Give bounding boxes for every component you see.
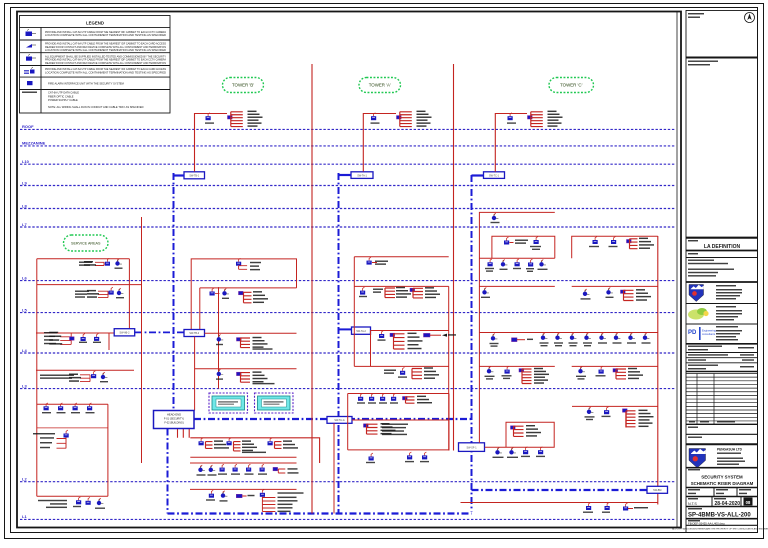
svg-text:LOCATION COMPLETE WITH ALL CON: LOCATION COMPLETE WITH ALL CONTAINMENT T… — [45, 48, 166, 52]
main consultant logo — [689, 449, 706, 468]
cluster tower C L5 cameras — [493, 333, 495, 336]
architect logo — [689, 285, 704, 302]
legend symbol row4 — [24, 71, 29, 74]
zone label TOWER B — [223, 78, 264, 93]
cluster tower A L4 — [384, 370, 396, 371]
camera tower C L9 — [494, 213, 496, 216]
fiber elbow tower A — [339, 174, 352, 176]
project name — [688, 240, 698, 241]
fiber trunk horizontal head-end to tower A — [194, 418, 472, 420]
riser main tower C — [657, 236, 659, 505]
floor line L8 — [20, 208, 676, 210]
riser tower C — [495, 114, 527, 172]
client info — [688, 260, 714, 261]
scale date row — [686, 497, 758, 507]
zone label SERVICE AREAS — [64, 235, 109, 251]
floor line ROOF — [20, 128, 676, 130]
branch tower B L3 lower edge — [190, 456, 296, 458]
switch tower B roof — [184, 172, 205, 179]
svg-text:SW-TC-1: SW-TC-1 — [489, 174, 500, 177]
branch tower B L7 box — [191, 259, 296, 332]
floor line L10 — [20, 163, 676, 165]
fiber trunk vertical tower C — [471, 175, 473, 512]
floor line L6 — [20, 280, 676, 282]
riser main tower A — [453, 64, 455, 451]
branch tower B L2 — [190, 488, 297, 490]
filename row — [688, 520, 700, 521]
svg-text:FIBER OPTIC CABLE: FIBER OPTIC CABLE — [48, 94, 74, 98]
branch tower C basement — [461, 502, 658, 504]
head-end connections — [178, 429, 320, 464]
branch tower B L6 — [200, 288, 297, 332]
svg-text:L10: L10 — [22, 159, 30, 164]
riser service column B — [218, 287, 220, 389]
cluster tower C L4 left — [489, 366, 491, 369]
svg-text:L4: L4 — [22, 348, 27, 353]
svg-text:N.T.S: N.T.S — [688, 502, 697, 506]
svg-text:SECURITY SYSTEM: SECURITY SYSTEM — [701, 475, 743, 480]
device row tower B L3 — [201, 465, 203, 468]
branch service L3 keypads — [37, 404, 108, 496]
ground floor branch box — [485, 422, 555, 447]
riser secondary tower A — [448, 286, 450, 450]
approval rows — [688, 346, 722, 347]
svg-text:NOTE: ALL WIRING SHALL RUN IN: NOTE: ALL WIRING SHALL RUN IN CONDUIT AN… — [48, 105, 144, 109]
fiber trunk below head-end — [167, 429, 169, 514]
svg-text:TOWER 'A': TOWER 'A' — [369, 83, 391, 88]
fiber elbow tower B — [174, 174, 185, 176]
cluster service basement — [37, 495, 108, 497]
floor line L1 — [20, 518, 676, 520]
ground floor device row — [498, 447, 500, 450]
cluster tower A L8 — [369, 257, 371, 260]
riser tower B — [195, 114, 228, 172]
drawing number — [688, 508, 702, 509]
cluster service L4 — [40, 375, 74, 376]
zone label TOWER A — [359, 78, 401, 93]
cluster tower B L6 — [212, 288, 214, 291]
monitor console 2 — [255, 393, 294, 413]
svg-text:PROVIDE AND INSTALL CAT-6A UTP: PROVIDE AND INSTALL CAT-6A UTP CABLE FRO… — [45, 67, 166, 71]
svg-text:L1: L1 — [22, 514, 27, 519]
svg-text:SW-TA-G: SW-TA-G — [334, 419, 344, 422]
svg-text:ROOF: ROOF — [22, 124, 34, 129]
device row tower C L9 mezz — [490, 259, 492, 262]
cluster tower B L3 cameras — [201, 438, 203, 441]
cluster ground floor comb — [511, 426, 516, 429]
branch service L6 — [37, 259, 142, 497]
zone label TOWER C — [549, 78, 594, 93]
switch tower C roof — [484, 172, 505, 179]
svg-text:L2: L2 — [22, 477, 27, 482]
floor line L2 — [20, 481, 676, 483]
svg-text:SCHEMATIC RISER DIAGRAM: SCHEMATIC RISER DIAGRAM — [691, 481, 754, 486]
cluster tower C L8 left — [507, 237, 509, 240]
head-end equipment box — [154, 411, 195, 429]
svg-text:SW-TB-1: SW-TB-1 — [189, 175, 199, 178]
cluster tower A L5 — [382, 331, 384, 334]
north arrow — [745, 13, 755, 23]
cluster tower C basement — [589, 503, 591, 506]
drawing status box — [686, 443, 758, 445]
branch service L4 — [36, 369, 134, 371]
title block rev text — [688, 13, 704, 14]
branch tower C L3 — [572, 405, 658, 407]
floor line L9 — [20, 185, 676, 187]
fiber elbow tower C — [472, 174, 484, 176]
svg-text:L6: L6 — [22, 275, 27, 280]
svg-text:ALL COPY AND DESIGN HEREIN ARE: ALL COPY AND DESIGN HEREIN ARE THE PROPE… — [672, 528, 768, 531]
branch tower A L4 — [354, 326, 448, 366]
client row — [688, 253, 698, 254]
cluster tower A ground row2 — [364, 424, 369, 427]
svg-text:FIRE ALARM INTERFACE UNIT WITH: FIRE ALARM INTERFACE UNIT WITH THE SECUR… — [48, 81, 124, 85]
svg-text:L5: L5 — [22, 307, 27, 312]
svg-text:SW-BM: SW-BM — [653, 489, 661, 492]
branch tower A L7 — [354, 285, 448, 287]
svg-text:L7: L7 — [22, 222, 27, 227]
branch tower A ground box — [334, 394, 449, 514]
cluster tower B L7 — [239, 258, 241, 261]
svg-text:SW-TB-2: SW-TB-2 — [189, 332, 199, 335]
svg-text:SW-TA-2: SW-TA-2 — [356, 330, 366, 333]
riser main tower B — [311, 64, 313, 514]
cluster service L5 — [44, 332, 57, 333]
drawing title — [686, 467, 758, 469]
legend symbol row5 — [27, 81, 33, 85]
branch service L5 to patch — [36, 333, 114, 350]
svg-text:READER DOOR CONTACT AND REX DE: READER DOOR CONTACT AND REX DEVICE COMPL… — [45, 61, 166, 65]
legend abbreviation label — [22, 92, 37, 93]
fiber trunk vertical tower A — [338, 173, 340, 514]
svg-text:CAT-6A UTP DATA CABLE: CAT-6A UTP DATA CABLE — [48, 91, 79, 95]
svg-text:TOWER 'C': TOWER 'C' — [560, 83, 582, 88]
cluster service L7a — [79, 262, 92, 263]
svg-text:LOCATION COMPLETE WITH ALL CON: LOCATION COMPLETE WITH ALL CONTAINMENT T… — [45, 71, 166, 75]
branch tower B L3 bottom — [190, 462, 297, 464]
revision table — [686, 374, 758, 425]
project number row — [686, 488, 758, 497]
cluster service L3b — [37, 427, 108, 429]
cluster tower A L7 — [363, 287, 365, 290]
svg-text:PENGASUH LTD: PENGASUH LTD — [717, 448, 743, 452]
monitor console 1 — [209, 393, 248, 413]
legend table — [20, 16, 171, 114]
fiber trunk horizontal basement left — [168, 512, 472, 514]
switch basement right — [647, 486, 668, 493]
cluster tower A ground row3 — [371, 453, 373, 456]
fiber link L5 row — [135, 331, 184, 333]
cluster service L6 — [75, 291, 89, 292]
floor line L4 — [20, 352, 676, 354]
cluster tower B L2 — [211, 490, 213, 493]
patch panel L5 — [114, 329, 135, 336]
seismic notes text — [688, 61, 718, 62]
branch tower A L5 — [371, 331, 449, 367]
switch tower A ground — [327, 417, 352, 424]
cluster tower C roof — [510, 113, 512, 116]
floor line L5 — [20, 312, 676, 314]
svg-text:LEGEND: LEGEND — [86, 21, 104, 26]
legend symbol row3 — [26, 57, 32, 61]
cluster tower A ground row1 — [361, 393, 363, 396]
svg-text:28-04-2020: 28-04-2020 — [715, 501, 741, 507]
legend symbol row2 — [26, 44, 32, 48]
branch tower C L9 box — [479, 212, 554, 442]
svg-text:HEAD-END: HEAD-END — [167, 413, 181, 417]
floor line L7 — [20, 226, 676, 228]
floor line MEZZANINE — [20, 145, 676, 147]
branch tower C L5 — [479, 332, 657, 334]
switch ground floor — [459, 443, 485, 452]
branch tower B L5 — [195, 333, 297, 410]
engineer logo — [688, 310, 704, 320]
svg-text:PROVIDE AND INSTALL CAT-6A UTP: PROVIDE AND INSTALL CAT-6A UTP CABLE FRO… — [45, 30, 166, 34]
patch panel tower A L5 — [352, 327, 371, 334]
svg-text:F-02 (BUILDING): F-02 (BUILDING) — [164, 422, 183, 425]
svg-text:LOCATION COMPLETE WITH ALL CON: LOCATION COMPLETE WITH ALL CONTAINMENT T… — [45, 33, 166, 37]
svg-text:MEZZANINE: MEZZANINE — [22, 141, 46, 146]
riser service column — [141, 217, 143, 463]
svg-text:F-01 (SECURITY): F-01 (SECURITY) — [164, 418, 184, 421]
svg-text:L8: L8 — [22, 203, 27, 208]
riser tower A — [363, 114, 396, 172]
cluster tower C L8 right — [595, 237, 597, 240]
branch tower B L4 — [195, 368, 297, 370]
svg-text:consultants: consultants — [702, 332, 716, 336]
notes box — [686, 433, 758, 435]
title block — [686, 11, 758, 533]
floor line L3 — [20, 388, 676, 390]
branch tower C L8 box left — [479, 236, 554, 258]
branch tower C L7 — [479, 285, 657, 287]
branch tower C L4 — [479, 365, 657, 367]
patch panel tower B L5 — [184, 330, 205, 337]
switch tower A roof — [351, 172, 373, 179]
svg-text:L3: L3 — [22, 383, 27, 388]
cluster tower B L4 — [219, 369, 221, 372]
svg-text:POWER SUPPLY CABLE: POWER SUPPLY CABLE — [48, 98, 78, 102]
branch tower A L8 box — [354, 257, 448, 327]
svg-text:SW-GF-1: SW-GF-1 — [466, 446, 477, 449]
svg-text:SERVICE AREAS: SERVICE AREAS — [71, 242, 101, 246]
svg-text:SW-TA-1: SW-TA-1 — [357, 174, 367, 177]
svg-text:SW-AB-2: SW-AB-2 — [119, 332, 130, 335]
svg-text:PD: PD — [688, 330, 697, 336]
fiber trunk horizontal basement right — [472, 489, 648, 491]
cluster tower C L3 comb — [589, 407, 591, 410]
cluster tower A roof — [374, 113, 376, 116]
svg-text:08: 08 — [746, 500, 751, 505]
revision header — [689, 421, 695, 422]
svg-text:LA DEFINITION: LA DEFINITION — [704, 244, 741, 250]
svg-text:L9: L9 — [22, 180, 27, 185]
svg-text:SP-4BMB-VS-ALL-200: SP-4BMB-VS-ALL-200 — [688, 513, 751, 519]
cluster tower B L5 — [219, 334, 221, 337]
cluster tower B roof — [208, 113, 210, 116]
svg-text:TOWER 'B': TOWER 'B' — [232, 83, 254, 88]
svg-text:Engineering: Engineering — [702, 329, 716, 333]
cluster tower C L4 right — [581, 366, 583, 369]
fiber trunk vertical tower B — [173, 173, 175, 411]
legend symbol row1 — [26, 32, 33, 37]
branch tower C L8 box right — [572, 236, 658, 258]
branch service L7 box — [37, 259, 130, 329]
cluster tower C L7 — [485, 287, 487, 290]
fiber elbow tower A mid switch — [339, 328, 353, 330]
revision cell — [744, 498, 753, 506]
